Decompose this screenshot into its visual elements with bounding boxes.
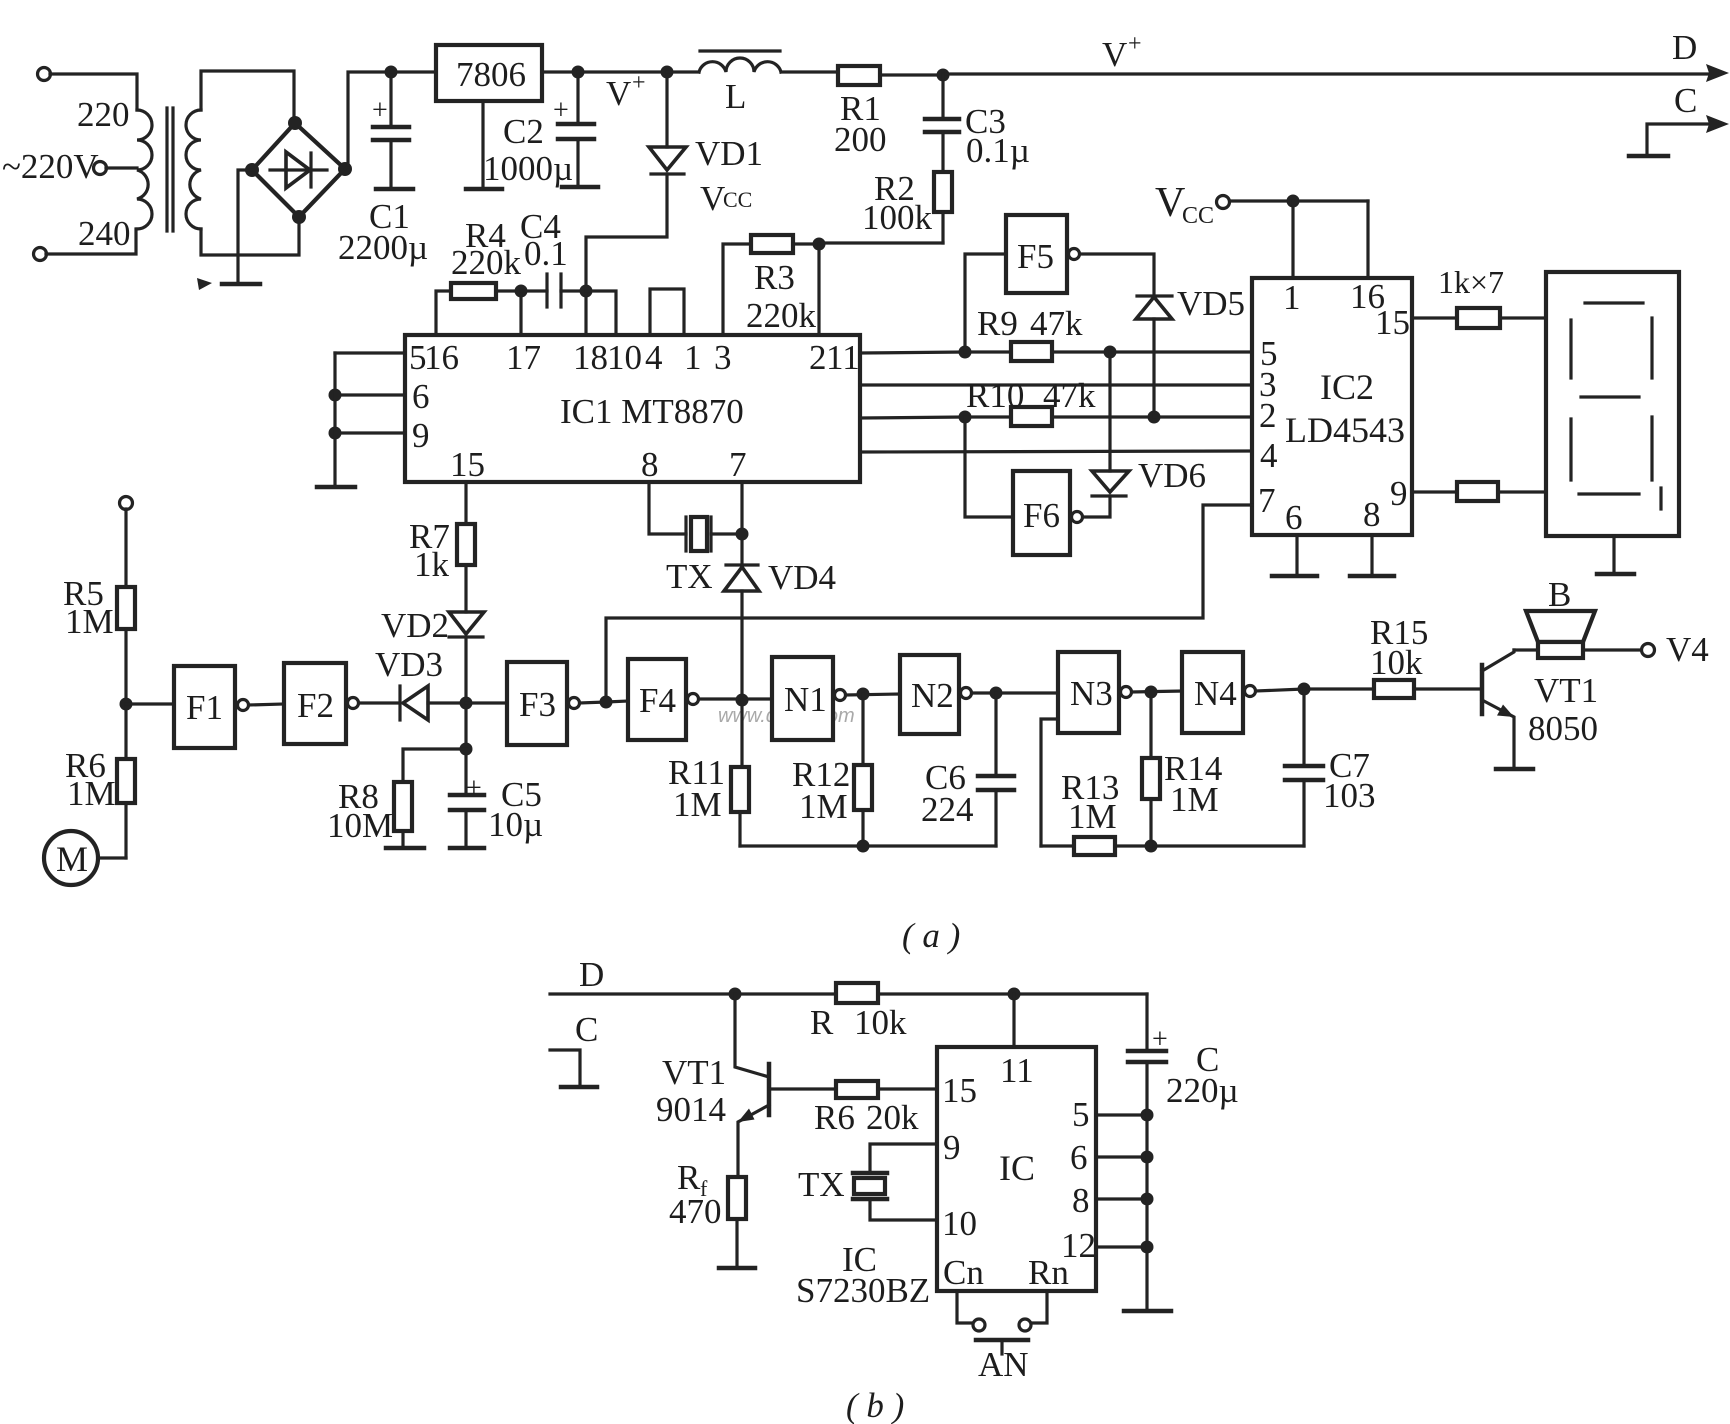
svg-text:0.1µ: 0.1µ [966, 131, 1030, 170]
svg-text:1M: 1M [67, 774, 116, 813]
svg-text:F5: F5 [1017, 237, 1054, 276]
svg-text:8050: 8050 [1528, 709, 1598, 748]
label R9 47k [977, 304, 1083, 343]
svg-text:47k: 47k [1043, 376, 1096, 415]
svg-text:6: 6 [412, 377, 430, 416]
resistor Rf 470 [719, 1177, 755, 1268]
svg-text:11: 11 [826, 338, 860, 377]
svg-text:4: 4 [645, 338, 663, 377]
pin labels IC1 top [409, 338, 860, 377]
resistor 1k a [1412, 308, 1546, 328]
svg-text:2: 2 [809, 338, 827, 377]
svg-text:V: V [1102, 35, 1127, 74]
svg-text:2200µ: 2200µ [338, 228, 428, 267]
node R5 R6 [120, 698, 133, 711]
svg-text:TX: TX [666, 557, 713, 596]
IC U2 LD4543 [1252, 278, 1412, 535]
pin labels IC1 bottom [450, 445, 747, 484]
svg-text:7806: 7806 [456, 55, 526, 94]
svg-text:1M: 1M [1170, 780, 1219, 819]
label R7 1k [409, 517, 450, 584]
svg-text:1M: 1M [65, 602, 114, 641]
resistor R14 1M [1142, 692, 1160, 846]
wire F1 F2 [249, 704, 284, 705]
wire IC pin5 b [1096, 1113, 1147, 1116]
trigger block N3 [1058, 652, 1132, 733]
speaker B [1514, 611, 1595, 658]
label C7 103 [1323, 746, 1376, 815]
amp block F5 [965, 215, 1080, 352]
amp block F6 [965, 417, 1083, 555]
svg-text:R9: R9 [977, 304, 1018, 343]
svg-text:V: V [1155, 180, 1185, 226]
svg-text:15: 15 [942, 1071, 977, 1110]
resistor R3 220k [723, 235, 819, 335]
label VT1 9014 [656, 1053, 726, 1129]
trigger block N4 [1182, 652, 1256, 733]
label C1 2200u [338, 197, 428, 267]
resistor R11 1M [731, 700, 749, 846]
wire IC1 pin5 [335, 351, 405, 354]
transistor Q2 9014 [735, 994, 769, 1177]
svg-text:+: + [372, 95, 388, 126]
svg-text:C: C [1674, 81, 1697, 120]
label R13 1M [1061, 768, 1119, 836]
bridge rectifier diamond [245, 116, 352, 224]
resistor R7 1k [457, 482, 475, 612]
node R14 top [1145, 686, 1158, 699]
svg-text:9: 9 [412, 416, 430, 455]
svg-text:F1: F1 [186, 688, 223, 727]
node pin18 [580, 285, 593, 298]
label V+ [606, 70, 646, 113]
label R8 10M [327, 777, 393, 845]
label R 10k [810, 1003, 907, 1042]
pin labels IC b [942, 1051, 1096, 1292]
svg-text:10: 10 [942, 1204, 977, 1243]
svg-text:IC2: IC2 [1320, 367, 1374, 407]
resistor R4 220k [436, 283, 521, 335]
svg-text:15: 15 [450, 445, 485, 484]
display 7-segment [1546, 272, 1679, 536]
svg-text:N2: N2 [911, 676, 954, 715]
svg-text:0.1: 0.1 [524, 234, 568, 273]
wire 7806 to C2 node [542, 70, 578, 73]
svg-text:6: 6 [1070, 1138, 1088, 1177]
resistor R12 1M [854, 694, 872, 846]
terminal: AC tap ~220V [94, 162, 138, 175]
svg-text:D: D [1672, 28, 1697, 67]
node Vcc [1287, 195, 1300, 208]
svg-text:3: 3 [714, 338, 732, 377]
svg-text:200: 200 [834, 120, 887, 159]
node pin12 b [1141, 1241, 1154, 1254]
capacitor C3 0.1u [925, 75, 959, 172]
node R9 right [1104, 346, 1117, 359]
diode VD6 [1084, 352, 1129, 517]
wire secondary top to bridge [201, 71, 294, 120]
svg-text:VD1: VD1 [695, 134, 763, 173]
svg-text:10k: 10k [854, 1003, 907, 1042]
svg-text:10M: 10M [327, 806, 393, 845]
svg-text:220: 220 [77, 95, 130, 134]
node VD4 F4 N1 [736, 694, 749, 707]
node pin11 b [1008, 988, 1021, 1001]
trigger block N2 [900, 655, 972, 734]
node R1/C3 [937, 69, 950, 82]
svg-text:N3: N3 [1070, 674, 1113, 713]
label R14 1M [1164, 749, 1222, 819]
motor M [44, 831, 126, 885]
regulator 7806 [436, 45, 542, 101]
amp block F1 [174, 666, 249, 748]
svg-text:( b ): ( b ) [846, 1386, 904, 1424]
wire R3 node to IC1 pin2 [817, 244, 820, 335]
capacitor C5 10u [450, 749, 484, 848]
wire node down [464, 703, 467, 749]
svg-text:CC: CC [1182, 203, 1214, 229]
wire F3 to F4 [580, 701, 628, 703]
svg-text:7: 7 [1258, 481, 1276, 520]
svg-text:1k: 1k [414, 545, 450, 584]
wire IC1 pin6 [335, 393, 405, 396]
node VD2 VD3 F3 [460, 697, 473, 710]
ground display [1597, 536, 1634, 574]
node R12 bottom [857, 840, 870, 853]
resistor R 10k b [836, 983, 878, 1003]
wire pin18 pin10 stubs [586, 291, 616, 335]
node pin8 b [1141, 1193, 1154, 1206]
svg-text:+: + [1152, 1024, 1168, 1055]
svg-text:1M: 1M [799, 787, 848, 826]
diode VD2 [449, 612, 484, 703]
svg-text:F6: F6 [1023, 496, 1060, 535]
arrow D [1706, 64, 1729, 82]
svg-text:VD3: VD3 [375, 645, 443, 684]
svg-text:LD4543: LD4543 [1285, 410, 1405, 450]
resistor R6 1M [117, 704, 135, 858]
diode VD5 [1080, 254, 1172, 417]
wire IC1 pin14 to IC2 pin4 [860, 451, 1252, 452]
svg-text:C2: C2 [503, 112, 544, 151]
diode VD4 [724, 565, 759, 700]
svg-text:M: M [56, 839, 88, 879]
wire node to F3 [466, 701, 507, 704]
svg-text:1: 1 [1283, 278, 1301, 317]
svg-text:8: 8 [1363, 495, 1381, 534]
svg-text:L: L [725, 77, 746, 116]
capacitor C2 1000u [553, 72, 598, 187]
ground IC2 pin8 [1350, 535, 1394, 576]
wire IC1 pin13 to R10 [860, 417, 1011, 418]
resistor R13 1M [1041, 837, 1304, 855]
svg-text:AN: AN [978, 1345, 1029, 1384]
inductor L [667, 51, 838, 72]
ground at IC1 left [317, 353, 355, 487]
label R3 220k [746, 258, 817, 335]
svg-text:1000µ: 1000µ [483, 149, 573, 188]
svg-text:240: 240 [78, 214, 131, 253]
wire N3 to N4 [1132, 691, 1182, 692]
svg-text:18: 18 [573, 338, 608, 377]
amp block F2 [284, 663, 359, 744]
wire IC1 pin11 to R9 [860, 352, 1011, 353]
terminal: AC input bottom [34, 229, 137, 261]
node R12 [857, 688, 870, 701]
node C2 [572, 66, 585, 79]
svg-text:11: 11 [1000, 1051, 1034, 1090]
node C1 [385, 66, 398, 79]
wire pin11 stub b [1012, 994, 1015, 1047]
svg-text:9: 9 [1390, 474, 1408, 513]
svg-text:7: 7 [729, 445, 747, 484]
svg-text:9014: 9014 [656, 1090, 726, 1129]
node VT1 collector b [729, 988, 742, 1001]
label R15 10k [1370, 613, 1428, 682]
node R3 right [813, 238, 826, 251]
resistor R6 20k b [769, 1081, 937, 1098]
svg-text:Cn: Cn [943, 1253, 984, 1292]
wire node to F1 [126, 702, 174, 705]
label C6 224 [921, 758, 974, 829]
node VD5 bottom [1148, 411, 1161, 424]
svg-text:N4: N4 [1194, 674, 1237, 713]
svg-text:12: 12 [1061, 1226, 1096, 1265]
svg-text:20k: 20k [866, 1098, 919, 1137]
svg-text:IC1 MT8870: IC1 MT8870 [560, 392, 744, 431]
terminal V4 [1583, 644, 1655, 657]
wire IC2 pin7 [606, 505, 1252, 702]
svg-text:8: 8 [641, 445, 659, 484]
svg-text:VD5: VD5 [1177, 284, 1245, 323]
svg-text:5: 5 [1072, 1095, 1090, 1134]
label VT1 8050 [1528, 671, 1598, 748]
arrow C [1706, 115, 1729, 133]
svg-text:15: 15 [1375, 303, 1410, 342]
svg-text:220µ: 220µ [1166, 1071, 1239, 1110]
svg-text:R3: R3 [754, 258, 795, 297]
resistor 1k b [1412, 482, 1546, 501]
node pin5 b [1141, 1109, 1154, 1122]
svg-text:F4: F4 [639, 681, 676, 720]
resistor R10 47k [1011, 407, 1252, 426]
IC U1 MT8870 [405, 335, 860, 482]
svg-text:16: 16 [424, 338, 459, 377]
label V+ mid [1102, 31, 1142, 74]
svg-text:2: 2 [1259, 396, 1277, 435]
svg-text:220k: 220k [746, 296, 817, 335]
node F3 F4 [600, 696, 613, 709]
node pin9 [329, 427, 342, 440]
wire IC pin6 b [1096, 1155, 1147, 1158]
svg-text:R: R [810, 1003, 834, 1042]
wire C with ground [1629, 124, 1712, 156]
transformer T primary winding [137, 110, 152, 229]
crystal TX b [853, 1144, 937, 1220]
svg-text:~220V: ~220V [2, 147, 99, 186]
wire IC1 pin7 [740, 482, 743, 565]
ground at 7806 [466, 101, 502, 189]
node pin7 crystal [736, 528, 749, 541]
svg-text:B: B [1548, 575, 1571, 614]
label R6 20k [814, 1098, 919, 1137]
diode VD3 [359, 686, 466, 720]
wire C2 to VD1 node [578, 70, 667, 73]
svg-text:103: 103 [1323, 776, 1376, 815]
svg-text:V: V [606, 74, 631, 113]
terminal: AC input top [38, 68, 138, 111]
capacitor C4 0.1 [521, 274, 586, 307]
resistor R1 200 [838, 66, 943, 85]
transistor Q1 8050 [1482, 650, 1533, 769]
svg-text:( a ): ( a ) [902, 916, 960, 955]
trigger block N1 [772, 657, 846, 740]
svg-text:TX: TX [798, 1165, 845, 1204]
resistor R5 1M [117, 587, 135, 704]
label R12 1M [792, 755, 850, 826]
label R2 100k [862, 169, 933, 237]
svg-text:+: + [553, 95, 569, 126]
svg-text:VT1: VT1 [662, 1053, 726, 1092]
resistor R2 100k [934, 172, 952, 243]
wire IC1 pin9 [335, 431, 405, 434]
label R10 47k [966, 376, 1096, 415]
amp block F3 [507, 662, 580, 745]
svg-text:6: 6 [1285, 498, 1303, 537]
IC U3 S7230BZ [937, 1047, 1096, 1291]
svg-text:+: + [466, 773, 482, 804]
wire D rail b [550, 992, 1147, 995]
capacitor C1 2200u [372, 72, 413, 189]
wire pins 4-1 bracket [650, 289, 684, 335]
node pin6 b [1141, 1151, 1154, 1164]
transformer core [167, 108, 173, 231]
svg-text:VD6: VD6 [1138, 456, 1206, 495]
label R6 1M [65, 746, 116, 813]
ground IC2 pin6 [1272, 535, 1317, 576]
node C6 [990, 687, 1003, 700]
switch AN [957, 1291, 1047, 1354]
svg-text:VD4: VD4 [768, 558, 836, 597]
capacitor C6 224 [978, 693, 1014, 846]
wire N2 to N3 [972, 691, 1058, 694]
wire V+ rail long [943, 72, 1712, 75]
label C5 10u [488, 775, 543, 844]
svg-text:R10: R10 [966, 376, 1024, 415]
node pin6 [329, 389, 342, 402]
svg-text:IC: IC [999, 1148, 1035, 1188]
svg-text:47k: 47k [1030, 304, 1083, 343]
node C7 R15 [1298, 683, 1311, 696]
crystal TX [649, 482, 742, 551]
svg-text:VD2: VD2 [381, 606, 449, 645]
terminal Vcc [1155, 180, 1368, 229]
wire N4 to R15 [1256, 689, 1374, 691]
svg-text:224: 224 [921, 790, 974, 829]
wire N1 to N2 [846, 694, 900, 695]
node VD1 [661, 66, 674, 79]
diode VD1 [586, 72, 686, 285]
label Rf 470 [669, 1158, 722, 1231]
svg-text:10: 10 [607, 338, 642, 377]
svg-text:1M: 1M [1068, 797, 1117, 836]
svg-text:F3: F3 [519, 685, 556, 724]
node pin17 [515, 285, 528, 298]
wire N3 feedback loop [1041, 719, 1058, 846]
svg-text:1M: 1M [673, 785, 722, 824]
svg-text:4: 4 [1260, 436, 1278, 475]
label C3 0.1u [965, 102, 1030, 170]
svg-text:9: 9 [943, 1128, 961, 1167]
svg-text:8: 8 [1072, 1181, 1090, 1220]
label C4 0.1 [520, 207, 568, 273]
terminal R5 top [120, 497, 133, 588]
wire IC pin8 b [1096, 1197, 1147, 1200]
svg-text:C: C [575, 1010, 598, 1049]
wire Vcc to IC2 pins 1 16 [1293, 201, 1368, 278]
resistor R9 47k [1011, 342, 1252, 361]
ground at bridge [222, 170, 260, 284]
node R13 R14 [1145, 840, 1158, 853]
amp block F4 [628, 659, 699, 740]
label R11 1M [668, 753, 725, 824]
svg-text:17: 17 [506, 338, 541, 377]
artifact mark [197, 278, 212, 290]
svg-text:+: + [1128, 31, 1142, 57]
svg-text:VT1: VT1 [1534, 671, 1598, 710]
svg-text:+: + [632, 70, 646, 96]
svg-text:N1: N1 [784, 680, 827, 719]
label R5 1M [63, 574, 114, 641]
label C 220u [1166, 1040, 1239, 1110]
resistor R8 10M [386, 749, 466, 848]
svg-text:F2: F2 [297, 686, 334, 725]
pin labels IC2 [1258, 277, 1410, 537]
svg-text:V4: V4 [1666, 630, 1709, 669]
label IC S7230BZ [796, 1240, 930, 1310]
svg-text:10k: 10k [1370, 643, 1423, 682]
svg-text:V: V [700, 179, 725, 218]
pin labels IC1 left [412, 377, 430, 455]
svg-text:10µ: 10µ [488, 805, 543, 844]
wire bridge to V+ rail [345, 72, 391, 169]
svg-text:1: 1 [684, 338, 702, 377]
wire rail to 7806 [391, 70, 436, 73]
node R10 left [959, 411, 972, 424]
transformer T secondary winding [186, 110, 201, 229]
node R9 left [959, 346, 972, 359]
label R4 220k [451, 216, 522, 282]
label Vcc [700, 179, 752, 218]
wire IC pin12 b [1096, 1245, 1147, 1248]
resistor R15 10k [1374, 680, 1482, 698]
label R1 200 [834, 89, 887, 159]
svg-text:220k: 220k [451, 243, 522, 282]
label C2 1000u [483, 112, 573, 188]
wire pin17 stub [519, 291, 522, 335]
wire bottom rail A [740, 844, 996, 847]
wire F4 to N1 [699, 697, 772, 700]
svg-text:100k: 100k [862, 198, 933, 237]
capacitor C7 103 [1285, 689, 1323, 846]
wire IC1 pin12 to IC2 pin3 [860, 383, 1252, 386]
svg-text:D: D [579, 955, 604, 994]
wire secondary bottom to bridge [201, 220, 299, 255]
node R8 C5 [460, 743, 473, 756]
svg-text:470: 470 [669, 1192, 722, 1231]
wire C mark b [550, 1050, 597, 1087]
svg-text:R6: R6 [814, 1098, 855, 1137]
